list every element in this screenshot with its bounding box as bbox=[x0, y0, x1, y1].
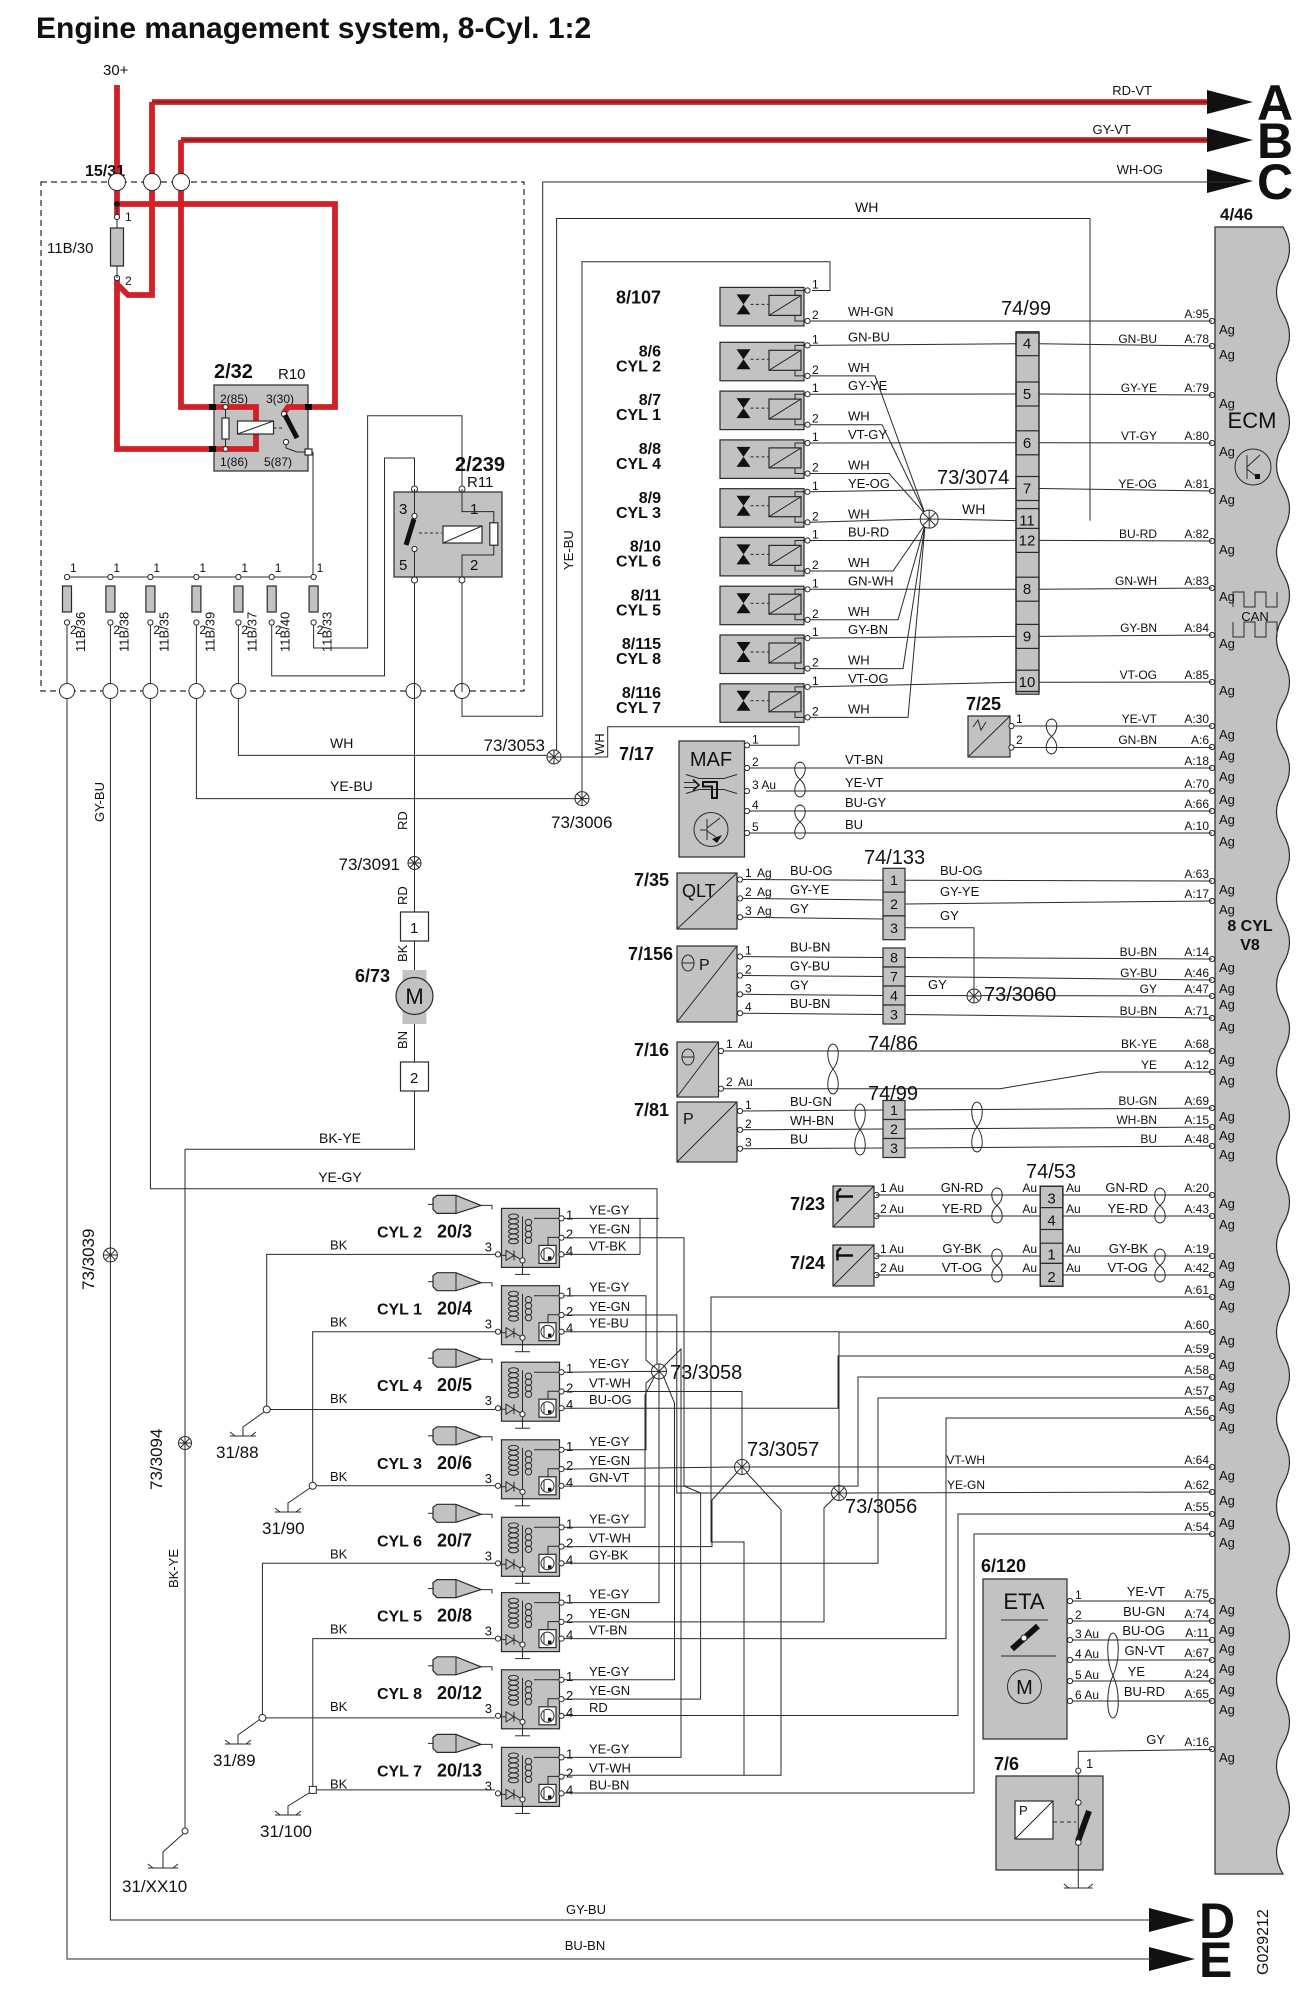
wire 8/116 pin1 VT-OG bbox=[810, 682, 1016, 687]
svg-text:QLT: QLT bbox=[682, 881, 716, 901]
wire 7/81 pin3 bbox=[743, 1147, 883, 1150]
svg-text:YE-GN: YE-GN bbox=[589, 1606, 630, 1621]
svg-text:CYL 2: CYL 2 bbox=[377, 1224, 422, 1241]
svg-text:4: 4 bbox=[752, 798, 759, 812]
svg-text:A:59: A:59 bbox=[1184, 1342, 1209, 1356]
svg-text:A:75: A:75 bbox=[1184, 1587, 1209, 1601]
svg-text:Ag: Ag bbox=[1219, 347, 1235, 362]
svg-text:A:10: A:10 bbox=[1184, 819, 1209, 833]
svg-text:1: 1 bbox=[566, 1439, 573, 1454]
connector 74/133 lower cells bbox=[883, 948, 905, 1024]
wire 74/99 cell 5 to ECM bbox=[1039, 394, 1212, 395]
svg-text:1: 1 bbox=[812, 674, 819, 688]
svg-text:Ag: Ag bbox=[1219, 1128, 1235, 1143]
svg-text:GY-YE: GY-YE bbox=[1121, 381, 1157, 395]
svg-text:Ag: Ag bbox=[1219, 1602, 1235, 1617]
svg-text:Au: Au bbox=[1022, 1202, 1037, 1216]
injector 8/107 bbox=[720, 287, 804, 326]
injector 8/7 CYL 1 bbox=[720, 391, 804, 430]
svg-text:1: 1 bbox=[752, 732, 759, 746]
svg-text:CYL 3: CYL 3 bbox=[616, 505, 661, 522]
ignition coil 20/4 CYL 1 bbox=[428, 1281, 433, 1283]
svg-text:YE-VT: YE-VT bbox=[845, 775, 883, 790]
svg-text:GY: GY bbox=[1140, 982, 1157, 996]
svg-text:VT-BN: VT-BN bbox=[589, 1623, 627, 1638]
wire 74/99 cell 8 to ECM bbox=[1039, 588, 1212, 589]
svg-text:CYL 4: CYL 4 bbox=[616, 456, 661, 473]
svg-text:VT-OG: VT-OG bbox=[848, 671, 888, 686]
fuse 11B/30 bbox=[111, 228, 124, 266]
ECM module 4/46 body bbox=[1215, 227, 1290, 1874]
wire 6/120 pin3 BU-OG bbox=[1073, 1639, 1212, 1641]
sensor 7/16 body bbox=[677, 1042, 719, 1097]
svg-text:GY-YE: GY-YE bbox=[940, 884, 980, 899]
svg-text:20/12: 20/12 bbox=[437, 1683, 482, 1703]
wire 8/6 pin2 WH bbox=[810, 376, 925, 514]
svg-text:A:69: A:69 bbox=[1184, 1094, 1209, 1108]
svg-text:A:54: A:54 bbox=[1184, 1520, 1209, 1534]
twisted pair 7/81 left bbox=[855, 1104, 866, 1155]
fuse 11B/40 bbox=[269, 574, 274, 579]
wire CYL7 pin1 join bbox=[564, 1349, 681, 1757]
svg-text:CAN: CAN bbox=[1241, 609, 1268, 624]
wire CYL8 pin4 RD to A:55 bbox=[564, 1514, 1212, 1716]
wire 74/53 row GY-BK right bbox=[1063, 1255, 1212, 1257]
junction 73/3057 bbox=[735, 1460, 750, 1475]
svg-text:CYL 8: CYL 8 bbox=[616, 651, 661, 668]
relay 2/32 coil element bbox=[222, 418, 229, 439]
svg-text:1: 1 bbox=[470, 501, 478, 518]
ground 31/88 bbox=[243, 1412, 264, 1436]
svg-text:A:20: A:20 bbox=[1184, 1181, 1209, 1195]
svg-text:2 Au: 2 Au bbox=[880, 1261, 904, 1275]
wire 74/99 cell 9 to ECM bbox=[1039, 635, 1212, 636]
svg-text:Ag: Ag bbox=[1219, 1750, 1235, 1765]
wire 7/35 pin2 GY-YE bbox=[743, 898, 883, 900]
svg-text:BK: BK bbox=[330, 1469, 348, 1484]
svg-text:BU-BN: BU-BN bbox=[1120, 1004, 1157, 1018]
svg-text:1: 1 bbox=[241, 561, 248, 575]
svg-text:BK-YE: BK-YE bbox=[1121, 1037, 1157, 1051]
wire red branch circle2 bbox=[117, 181, 152, 295]
svg-text:BK: BK bbox=[330, 1546, 348, 1561]
svg-text:9: 9 bbox=[1023, 628, 1031, 645]
wire red branch circle2 up bbox=[149, 102, 155, 181]
svg-text:GY: GY bbox=[928, 977, 947, 992]
svg-text:A:66: A:66 bbox=[1184, 797, 1209, 811]
twisted pair 7/81 right bbox=[972, 1102, 983, 1152]
svg-text:P: P bbox=[1019, 1803, 1028, 1818]
wire 74/53 row GY-BK left bbox=[876, 1255, 1040, 1257]
svg-text:CYL 5: CYL 5 bbox=[616, 602, 661, 619]
svg-text:Ag: Ag bbox=[1219, 1298, 1235, 1313]
sensor 7/35 pins bbox=[737, 877, 742, 882]
relay 2/32 switch bbox=[281, 411, 286, 416]
wire fuse39 to bus circle bbox=[195, 625, 197, 684]
svg-text:1: 1 bbox=[199, 561, 206, 575]
svg-text:VT-OG: VT-OG bbox=[1108, 1260, 1148, 1275]
junction 73/3056 bbox=[832, 1486, 847, 1501]
wire red fuse out down bbox=[117, 278, 213, 449]
wire red 30+ vertical bbox=[114, 85, 120, 215]
svg-text:A:68: A:68 bbox=[1184, 1037, 1209, 1051]
svg-text:2: 2 bbox=[1047, 1269, 1055, 1286]
wire fuse 11B/30 pin2 bbox=[116, 266, 118, 278]
wire 74/133-3c to A:71 bbox=[905, 1015, 1212, 1019]
svg-text:BK: BK bbox=[330, 1622, 348, 1637]
svg-text:Ag: Ag bbox=[1219, 960, 1235, 975]
svg-text:1: 1 bbox=[1016, 712, 1023, 726]
wire 7/6 ground bbox=[1077, 1845, 1079, 1888]
svg-text:73/3056: 73/3056 bbox=[845, 1496, 917, 1518]
wire CYL2 pin4 up to A:61 bbox=[639, 1218, 641, 1254]
wire 73/3074 to 74/99 pin11 bbox=[938, 519, 1016, 521]
wire BK CYL6+CYL8 to ground bbox=[262, 1563, 495, 1715]
twisted pair MAF 4-5 bbox=[795, 805, 806, 839]
svg-text:6/120: 6/120 bbox=[981, 1556, 1026, 1576]
svg-text:BU-GN: BU-GN bbox=[790, 1094, 832, 1109]
svg-text:VT-WH: VT-WH bbox=[946, 1453, 985, 1467]
svg-text:Ag: Ag bbox=[1219, 1378, 1235, 1393]
svg-text:3: 3 bbox=[1047, 1191, 1055, 1208]
svg-text:YE-OG: YE-OG bbox=[1118, 477, 1157, 491]
svg-text:GY: GY bbox=[940, 908, 959, 923]
svg-text:2: 2 bbox=[812, 656, 819, 670]
svg-text:1: 1 bbox=[745, 1098, 752, 1112]
svg-text:A:67: A:67 bbox=[1184, 1646, 1209, 1660]
svg-text:3 Au: 3 Au bbox=[752, 778, 776, 792]
svg-text:20/8: 20/8 bbox=[437, 1606, 472, 1626]
svg-text:YE-GN: YE-GN bbox=[589, 1222, 630, 1237]
svg-text:Ag: Ag bbox=[1219, 1196, 1235, 1211]
fuse 11B/38 bbox=[108, 574, 113, 579]
svg-text:CYL 2: CYL 2 bbox=[616, 358, 661, 375]
svg-text:WH-BN: WH-BN bbox=[790, 1113, 834, 1128]
svg-text:GY-BU: GY-BU bbox=[566, 1902, 606, 1917]
junction 73/3091 bbox=[408, 857, 421, 870]
svg-text:RD: RD bbox=[395, 886, 410, 905]
svg-text:1: 1 bbox=[812, 430, 819, 444]
svg-text:Ag: Ag bbox=[1219, 1661, 1235, 1676]
svg-text:WH: WH bbox=[848, 506, 870, 521]
wire CYL6 pin1 join bbox=[564, 1379, 659, 1603]
svg-text:1: 1 bbox=[812, 381, 819, 395]
fuse 11B/35 bbox=[148, 574, 153, 579]
svg-text:2: 2 bbox=[410, 1070, 418, 1087]
svg-text:CYL 7: CYL 7 bbox=[616, 700, 661, 717]
svg-text:A:15: A:15 bbox=[1184, 1113, 1209, 1127]
svg-text:4: 4 bbox=[745, 1000, 752, 1014]
wire 74/133-1 BU-OG to A:63 bbox=[905, 879, 1212, 882]
svg-text:VT-WH: VT-WH bbox=[589, 1531, 631, 1546]
svg-text:A:43: A:43 bbox=[1184, 1202, 1209, 1216]
svg-text:YE-GN: YE-GN bbox=[589, 1683, 630, 1698]
svg-text:CYL 3: CYL 3 bbox=[377, 1456, 422, 1473]
svg-text:1: 1 bbox=[317, 561, 324, 575]
wire 74/53 row VT-OG left bbox=[876, 1274, 1040, 1276]
svg-text:1: 1 bbox=[1086, 1756, 1093, 1771]
svg-text:GY-BK: GY-BK bbox=[589, 1547, 629, 1562]
svg-text:11B/37: 11B/37 bbox=[244, 612, 259, 652]
relay 2/239 coil bbox=[443, 526, 482, 543]
wire YE-BU from fuse39 bbox=[196, 699, 575, 799]
svg-text:GN-WH: GN-WH bbox=[1115, 574, 1157, 588]
svg-text:5(87): 5(87) bbox=[264, 455, 292, 469]
wire BN bbox=[414, 1024, 416, 1062]
svg-text:3: 3 bbox=[399, 501, 407, 518]
svg-text:Ag: Ag bbox=[1219, 1276, 1235, 1291]
svg-text:4: 4 bbox=[890, 988, 898, 1004]
svg-text:P: P bbox=[683, 1111, 694, 1128]
svg-text:Ag: Ag bbox=[1219, 1535, 1235, 1550]
wire BK bbox=[414, 941, 416, 970]
wire 8/11 pin2 WH bbox=[810, 524, 925, 620]
svg-text:YE-GY: YE-GY bbox=[589, 1664, 630, 1679]
wire 8/116 pin2 WH bbox=[810, 524, 925, 717]
svg-text:BU: BU bbox=[1140, 1132, 1157, 1146]
connector 74/53 cells bbox=[1040, 1186, 1063, 1286]
svg-text:YE-VT: YE-VT bbox=[1122, 712, 1158, 726]
svg-text:BK: BK bbox=[330, 1699, 348, 1714]
svg-text:3: 3 bbox=[745, 981, 752, 995]
svg-text:2: 2 bbox=[566, 1227, 573, 1242]
svg-text:11B/38: 11B/38 bbox=[116, 612, 131, 652]
connector arrow E bbox=[1149, 1947, 1195, 1971]
svg-text:E: E bbox=[1199, 1932, 1232, 1988]
svg-text:20/5: 20/5 bbox=[437, 1375, 472, 1395]
injector 8/9 CYL 3 bbox=[720, 489, 804, 528]
svg-text:4: 4 bbox=[566, 1475, 573, 1490]
svg-text:8/107: 8/107 bbox=[616, 288, 661, 308]
svg-text:Ag: Ag bbox=[1219, 727, 1235, 742]
svg-text:GY-BK: GY-BK bbox=[942, 1241, 982, 1256]
svg-text:WH: WH bbox=[848, 458, 870, 473]
svg-text:VT-BN: VT-BN bbox=[845, 752, 883, 767]
svg-text:2: 2 bbox=[566, 1458, 573, 1473]
svg-text:C: C bbox=[1257, 154, 1293, 210]
wire 74/133-2 GY-YE to A:17 bbox=[905, 901, 1212, 904]
wire WH up and across bbox=[557, 219, 1090, 751]
svg-text:BU-RD: BU-RD bbox=[848, 525, 889, 540]
svg-text:2: 2 bbox=[726, 1075, 733, 1089]
wire 74/99 cell 10 to ECM bbox=[1039, 681, 1212, 683]
svg-text:A:78: A:78 bbox=[1184, 332, 1209, 346]
svg-text:2: 2 bbox=[1075, 1608, 1082, 1622]
wire thin under B bbox=[181, 139, 1240, 141]
svg-text:A:17: A:17 bbox=[1184, 887, 1209, 901]
svg-text:YE-GN: YE-GN bbox=[589, 1299, 630, 1314]
wire RD down bbox=[414, 699, 416, 912]
connector arrow A bbox=[1207, 90, 1253, 114]
injector 8/10 CYL 6 bbox=[720, 537, 804, 576]
svg-text:4: 4 bbox=[1023, 336, 1031, 353]
svg-text:A:84: A:84 bbox=[1184, 621, 1209, 635]
wire 7/25 pin2 GN-BN bbox=[1014, 747, 1212, 749]
svg-text:3: 3 bbox=[890, 1007, 898, 1023]
svg-text:A:79: A:79 bbox=[1184, 381, 1209, 395]
svg-text:YE-BU: YE-BU bbox=[589, 1316, 629, 1331]
sensor 7/81 pins bbox=[737, 1094, 834, 1151]
wire 8/7 pin1 GY-YE bbox=[810, 393, 1016, 395]
svg-text:2: 2 bbox=[812, 461, 819, 475]
svg-text:BU-OG: BU-OG bbox=[790, 863, 833, 878]
svg-text:A:55: A:55 bbox=[1184, 1500, 1209, 1514]
svg-text:A:83: A:83 bbox=[1184, 574, 1209, 588]
svg-text:BU-BN: BU-BN bbox=[565, 1938, 605, 1953]
svg-text:YE-RD: YE-RD bbox=[942, 1201, 982, 1216]
svg-text:73/3053: 73/3053 bbox=[484, 736, 545, 755]
wire CYL3 pin4 GN-VT to A:58 bbox=[564, 1377, 1212, 1486]
svg-text:1: 1 bbox=[745, 866, 752, 880]
svg-text:VT-BK: VT-BK bbox=[589, 1238, 627, 1253]
svg-text:A:74: A:74 bbox=[1184, 1607, 1209, 1621]
svg-text:2: 2 bbox=[752, 755, 759, 769]
wire fuse 11B/30 pin1 bbox=[116, 204, 118, 228]
svg-text:31/88: 31/88 bbox=[216, 1443, 259, 1462]
svg-text:A:47: A:47 bbox=[1184, 982, 1209, 996]
wire YE-BU up to 8/107 bbox=[582, 262, 830, 791]
terminal box 2 bbox=[401, 1062, 429, 1091]
ECM CAN icon bbox=[1233, 592, 1277, 607]
wire 74/133-3 GY to 73/3060 bbox=[905, 928, 974, 989]
svg-text:Ag: Ag bbox=[1219, 492, 1235, 507]
svg-text:3: 3 bbox=[485, 1393, 492, 1408]
svg-text:VT-WH: VT-WH bbox=[589, 1761, 631, 1776]
svg-text:2: 2 bbox=[812, 607, 819, 621]
svg-text:1: 1 bbox=[410, 920, 418, 937]
wire CYL5 pin4 VT-BN to A:56 bbox=[564, 1418, 1212, 1639]
svg-text:GY-YE: GY-YE bbox=[848, 378, 888, 393]
svg-text:7/25: 7/25 bbox=[966, 694, 1001, 714]
svg-text:YE-GY: YE-GY bbox=[589, 1741, 630, 1756]
svg-text:2: 2 bbox=[566, 1536, 573, 1551]
svg-text:1: 1 bbox=[890, 872, 898, 888]
svg-text:GN-BU: GN-BU bbox=[848, 329, 890, 344]
svg-text:3: 3 bbox=[745, 1136, 752, 1150]
svg-text:Ag: Ag bbox=[1219, 1147, 1235, 1162]
wire fuse36 to bus circle bbox=[66, 625, 68, 684]
svg-text:11B/30: 11B/30 bbox=[47, 240, 93, 257]
wire fuse35 to bus circle bbox=[149, 625, 151, 684]
svg-text:Ag: Ag bbox=[1219, 1493, 1235, 1508]
svg-text:A:24: A:24 bbox=[1184, 1667, 1209, 1681]
svg-text:M: M bbox=[405, 984, 423, 1009]
svg-text:G029212: G029212 bbox=[1255, 1909, 1272, 1975]
svg-text:4: 4 bbox=[566, 1397, 573, 1412]
svg-text:GY-BN: GY-BN bbox=[1120, 621, 1157, 635]
twisted pair 6/120 bbox=[1108, 1633, 1119, 1718]
sensor 7/25 body bbox=[968, 716, 1010, 757]
svg-text:Engine management system, 8-Cy: Engine management system, 8-Cyl. 1:2 bbox=[36, 12, 591, 45]
svg-text:1: 1 bbox=[70, 561, 77, 575]
fuse 11B/37 bbox=[236, 574, 241, 579]
svg-text:3: 3 bbox=[485, 1778, 492, 1793]
wire WH-OG to C bbox=[462, 692, 543, 716]
svg-text:A:14: A:14 bbox=[1184, 945, 1209, 959]
svg-text:GY-BU: GY-BU bbox=[1120, 966, 1157, 980]
injector 8/8 CYL 4 bbox=[720, 440, 804, 479]
svg-text:A:62: A:62 bbox=[1184, 1478, 1209, 1492]
wire 74/53 row GN-RD left bbox=[876, 1194, 1040, 1196]
svg-text:1: 1 bbox=[566, 1746, 573, 1761]
svg-text:A:42: A:42 bbox=[1184, 1261, 1209, 1275]
svg-text:Ag: Ag bbox=[1219, 902, 1235, 917]
svg-text:BU-BN: BU-BN bbox=[790, 940, 830, 955]
wire CYL6 pin4 GY-BK to A:57 bbox=[564, 1398, 1212, 1563]
wire CYL4 pin1 join bbox=[564, 1370, 652, 1373]
svg-text:2: 2 bbox=[745, 1117, 752, 1131]
svg-text:VT-WH: VT-WH bbox=[589, 1376, 631, 1391]
svg-text:74/53: 74/53 bbox=[1026, 1161, 1076, 1183]
svg-text:1: 1 bbox=[566, 1285, 573, 1300]
svg-text:5: 5 bbox=[752, 820, 759, 834]
wire MAF pin5 to A:10 bbox=[750, 832, 1212, 834]
svg-text:1: 1 bbox=[812, 332, 819, 346]
svg-text:BU-OG: BU-OG bbox=[940, 863, 983, 878]
svg-text:CYL 1: CYL 1 bbox=[616, 407, 661, 424]
wire CYL6 pin2 to 73/3057 bbox=[564, 1473, 737, 1547]
svg-text:BK: BK bbox=[330, 1391, 348, 1406]
svg-text:Ag: Ag bbox=[1219, 1333, 1235, 1348]
svg-text:2: 2 bbox=[812, 308, 819, 322]
connector 74/99 strip bbox=[1016, 332, 1039, 695]
svg-text:GY: GY bbox=[1146, 1732, 1165, 1747]
injector 8/115 CYL 8 bbox=[720, 635, 804, 674]
wire fuse38 to bus circle bbox=[109, 625, 111, 684]
svg-text:Au: Au bbox=[1022, 1181, 1037, 1195]
wire CYL1 pin4 YE-BU to A:60row bbox=[564, 1331, 839, 1333]
wire 8/11 pin1 GN-WH bbox=[810, 588, 1016, 590]
svg-text:Ag: Ag bbox=[1219, 542, 1235, 557]
svg-text:1: 1 bbox=[113, 561, 120, 575]
svg-text:7/35: 7/35 bbox=[634, 870, 669, 890]
wire 74/53 row YE-RD right bbox=[1063, 1215, 1212, 1217]
svg-text:3: 3 bbox=[485, 1624, 492, 1639]
injector 8/6 CYL 2 bbox=[720, 342, 804, 381]
svg-text:Ag: Ag bbox=[1219, 1217, 1235, 1232]
svg-text:GN-RD: GN-RD bbox=[941, 1180, 984, 1195]
svg-text:A:56: A:56 bbox=[1184, 1404, 1209, 1418]
svg-text:Ag: Ag bbox=[1219, 322, 1235, 337]
svg-text:2: 2 bbox=[890, 1121, 898, 1137]
wire 74/53 row YE-RD left bbox=[876, 1215, 1040, 1217]
svg-text:CYL 5: CYL 5 bbox=[377, 1609, 422, 1626]
wire A:61 to V711 bbox=[711, 1297, 1212, 1775]
svg-text:Au: Au bbox=[1066, 1202, 1081, 1216]
wire CYL7 pin4 BU-BN to A:54 bbox=[564, 1534, 1212, 1793]
wire relay 2/32 87 down to fuse bus bbox=[312, 452, 314, 577]
svg-text:BU: BU bbox=[790, 1132, 808, 1147]
svg-text:5: 5 bbox=[399, 557, 407, 574]
node dot 30+ junction bbox=[114, 201, 120, 207]
svg-text:WH: WH bbox=[330, 735, 353, 751]
wire BK CYL5+CYL7 to ground bbox=[313, 1639, 495, 1787]
junction 73/3060 bbox=[967, 989, 981, 1003]
svg-text:YE-OG: YE-OG bbox=[848, 476, 890, 491]
svg-text:GN-VT: GN-VT bbox=[1125, 1643, 1166, 1658]
svg-text:Ag: Ag bbox=[1219, 1052, 1235, 1067]
switch 7/6 contact bbox=[1076, 1800, 1082, 1806]
svg-text:YE-VT: YE-VT bbox=[1127, 1584, 1165, 1599]
svg-text:A:18: A:18 bbox=[1184, 754, 1209, 768]
ignition coil 20/13 CYL 7 bbox=[428, 1742, 433, 1744]
sensor 7/25 pins bbox=[1009, 723, 1014, 728]
svg-text:BU-RD: BU-RD bbox=[1124, 1684, 1165, 1699]
svg-text:2: 2 bbox=[812, 558, 819, 572]
svg-text:CYL 8: CYL 8 bbox=[377, 1686, 422, 1703]
svg-text:Au: Au bbox=[1066, 1261, 1081, 1275]
wire CYL2 pin2 to 73/3056 bbox=[564, 1238, 701, 1493]
